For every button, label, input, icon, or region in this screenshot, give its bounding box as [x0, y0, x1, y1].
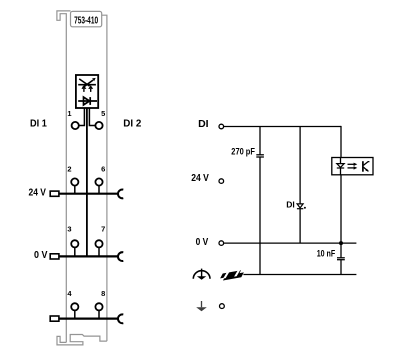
svg-text:24 V: 24 V: [191, 173, 209, 184]
capacitor C1 270 pF: [256, 155, 264, 157]
svg-text:5: 5: [101, 109, 105, 118]
svg-text:DI 1: DI 1: [30, 118, 47, 130]
svg-text:DI 2: DI 2: [123, 118, 141, 130]
svg-text:270 pF: 270 pF: [231, 147, 255, 157]
terminal 5: [95, 122, 102, 129]
terminal 3: [71, 240, 78, 247]
svg-text:753-410: 753-410: [74, 15, 98, 26]
wire opto branch to 0V junction: [340, 175, 342, 243]
earth male blade connector: [50, 316, 59, 321]
svg-text:2: 2: [67, 165, 71, 174]
stub terminal 7 to 0V bus: [98, 247, 100, 256]
24V bus bar: [59, 193, 119, 195]
wire pin to terminal 5: [89, 108, 95, 126]
module outline right edge: [102, 15, 107, 341]
0V rail wire: [224, 242, 357, 244]
svg-text:24 V: 24 V: [29, 188, 47, 199]
24V terminal: [219, 179, 224, 184]
svg-text:0 V: 0 V: [34, 250, 48, 261]
opto box U1 in module: [76, 75, 98, 108]
label box 753-410: [71, 11, 102, 26]
shield connection symbol: [219, 270, 244, 281]
stub terminal 2 to 24V bus: [74, 185, 76, 193]
DI terminal: [219, 124, 224, 129]
stub terminal 3 to 0V bus: [74, 247, 76, 256]
0V female socket: [118, 252, 123, 261]
terminal 7: [95, 240, 102, 247]
wire pin to terminal 1: [79, 108, 85, 126]
wire opto branch from top rail: [340, 126, 342, 158]
stub terminal 4 to earth bus: [74, 310, 76, 318]
module foot (DIN rail latch): [57, 335, 107, 345]
functional earth symbol: [193, 269, 210, 280]
terminal 8: [95, 303, 102, 310]
terminal 1: [72, 122, 79, 129]
svg-text:3: 3: [67, 225, 71, 234]
LED pair symbol in opto box: [78, 78, 96, 92]
earth terminal: [220, 304, 225, 309]
wire LED branch upper: [299, 127, 301, 204]
terminal 2: [71, 178, 78, 185]
24V female socket: [118, 190, 123, 199]
svg-text:6: 6: [101, 165, 105, 174]
terminal 6: [95, 178, 102, 185]
wire junction to 10nF: [340, 243, 342, 258]
svg-text:DI: DI: [198, 118, 209, 130]
wire center bus from opto box down to 0V bus: [86, 108, 88, 256]
junction dot on 0V rail: [339, 241, 343, 245]
svg-text:7: 7: [101, 225, 105, 234]
svg-text:DI: DI: [286, 200, 295, 210]
24V male blade connector: [50, 191, 59, 196]
LED DI indicator: [297, 204, 306, 209]
svg-text:0 V: 0 V: [196, 237, 209, 248]
earth bus bar: [59, 318, 119, 320]
0V bus bar: [59, 255, 119, 257]
svg-text:8: 8: [101, 289, 105, 298]
opto phototransistor: [363, 161, 370, 172]
DI top rail wire: [224, 126, 341, 128]
earth female socket: [118, 314, 123, 323]
wire 270pF branch lower crossing 0V to bottom rail: [259, 157, 261, 274]
opto LED: [337, 158, 344, 175]
0V terminal: [219, 241, 224, 246]
opto-coupler box U2: [332, 158, 373, 175]
wire 270pF branch upper: [259, 127, 261, 155]
diode D1 in opto box: [78, 97, 97, 105]
bottom shield rail wire: [243, 274, 356, 276]
capacitor C2 10 nF: [337, 258, 345, 260]
svg-text:10 nF: 10 nF: [317, 249, 336, 259]
stub terminal 8 to earth bus: [98, 310, 100, 318]
functional earth ground symbol lower: [196, 301, 207, 311]
stub terminal 6 to 24V bus: [98, 185, 100, 193]
terminal 4: [71, 303, 78, 310]
module outline left edge with top hook: [57, 11, 71, 343]
svg-text:1: 1: [67, 109, 71, 118]
0V male blade connector: [50, 254, 59, 259]
wire LED branch lower: [299, 209, 301, 243]
wire 10nF to bottom rail: [340, 260, 342, 275]
opto light arrows: [348, 163, 358, 170]
